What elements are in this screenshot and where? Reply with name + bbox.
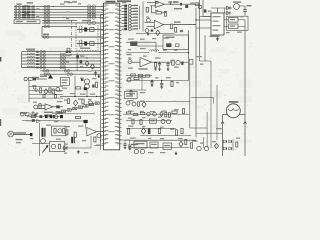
wire x196 main (195, 8, 197, 137)
testpoint TP1 (170, 1, 179, 3)
label U1 top (106, 1, 116, 3)
label M1 (229, 101, 239, 103)
connector pins J2-3 (88, 10, 96, 14)
box AMP1 (52, 126, 67, 136)
wire C201 stub (95, 71, 97, 77)
wire row A2 (14, 8, 87, 10)
op-amp U5A (45, 104, 53, 110)
connector pins J5-1 (60, 53, 66, 56)
ferrite bead FB4b (18, 14, 20, 16)
resistor R405 (151, 30, 154, 32)
wire row B5 (22, 63, 101, 65)
resistor R1201 (132, 119, 134, 124)
capacitor C401 (155, 2, 158, 3)
label shield box (82, 20, 91, 21)
wire x75 vert (74, 76, 76, 96)
misc value labels (16, 2, 244, 154)
wire filter row 1 (77, 29, 104, 31)
wire y120 row (126, 119, 172, 121)
resistor R506 (145, 75, 150, 77)
wire IC3 in2 (200, 16, 212, 18)
resistor R801 (134, 77, 139, 79)
label J3 (43, 34, 49, 35)
capacitor C1201 (148, 129, 151, 134)
resistor R1206 (175, 130, 177, 135)
diode D801 (142, 102, 146, 108)
capacitor C402 (180, 30, 183, 31)
transistor Q901 (41, 139, 46, 144)
connector pins J3 (43, 36, 49, 39)
label shield bottom (80, 48, 90, 49)
ferrite bead FB1b (18, 5, 20, 7)
wire U5A in (38, 105, 46, 108)
resistor R1205 (158, 129, 160, 134)
wire x84.5 vert (85, 123, 87, 128)
connector pins J4-7 (43, 70, 49, 73)
ground G301 (216, 37, 219, 41)
label bottom-left row (44, 112, 53, 113)
ground G1201 (175, 152, 178, 155)
wire row B2 (22, 54, 101, 56)
resistor R702 (76, 87, 81, 89)
resistor R1203 (150, 119, 157, 123)
volume arrow VR1 (43, 146, 48, 153)
resistor R1202 (140, 120, 142, 125)
capacitor CB6 (36, 67, 39, 69)
wire y95 right (191, 97, 213, 99)
node dot bus3 (100, 96, 101, 97)
capacitor C1001 (84, 120, 88, 123)
wire y46 center (137, 45, 163, 47)
transistor Q403 (198, 5, 201, 8)
wire rail y96.4 (60, 95, 104, 97)
resistor R905 (40, 115, 43, 118)
wire row A5 (14, 16, 87, 18)
wire x203 down (202, 0, 204, 17)
resistor R1301 (190, 143, 192, 148)
connector pins J5-4 (60, 63, 66, 66)
op-amp U4A (140, 58, 152, 67)
transistor Q1203 (134, 149, 138, 153)
filter coil FL1 (79, 26, 82, 33)
transistor Q801 (127, 78, 131, 82)
connector pins J4-2 (40, 54, 46, 57)
wire rail y90.4 (29, 89, 63, 91)
wire U3 top pin (217, 8, 219, 13)
diode D701 (74, 100, 78, 106)
transistor Q1001 (97, 134, 101, 138)
ground G503c (167, 68, 170, 71)
resistor R502 (154, 63, 156, 68)
capacitor C904 (32, 119, 35, 122)
label below mic (16, 139, 23, 140)
relay K1 frame (227, 16, 249, 30)
inductor L205 (27, 63, 35, 65)
wire x77 vert (76, 53, 78, 71)
resistor R1004 (94, 137, 96, 142)
transformer T201 (66, 51, 71, 53)
filter cap CF1 (84, 28, 87, 32)
wire S1 (36, 78, 47, 80)
diode D1301 (215, 143, 219, 148)
filter coil FL2 (79, 40, 82, 47)
transistor Q601b (56, 88, 60, 92)
wire IC3 in4 (196, 27, 211, 29)
transistor Q1301 (197, 146, 201, 150)
label bank B top (26, 49, 35, 50)
box tuner BX1 (163, 35, 189, 49)
plus mark 2 (36, 112, 39, 115)
resistor R505 (138, 74, 143, 76)
wire row A6-ext (77, 22, 104, 24)
op-amp U2A (155, 1, 164, 7)
left edge scan mark 2 (0, 119, 1, 126)
wire J2 row 4 to IC (87, 14, 104, 16)
relay coil K1b (229, 24, 239, 29)
connector pins J2-5 (88, 16, 96, 20)
transformer T104 (22, 14, 35, 16)
capacitor C1102 (128, 140, 131, 150)
box AMP2 (49, 142, 65, 152)
wire y41.5 center (126, 41, 156, 43)
ground G1001 (77, 150, 80, 153)
diode D1201 (141, 128, 146, 134)
ferrite bead FB3a (15, 11, 17, 13)
capacitor C403 (180, 3, 182, 6)
wire U2B in+ (145, 21, 155, 23)
resistor R811 (168, 113, 170, 117)
wire x213 vert (213, 98, 215, 104)
connector pins J6 (33, 86, 38, 91)
capacitor CB2 (36, 54, 39, 56)
transformer T103 (22, 11, 35, 13)
connector pins J2-4 (88, 13, 96, 17)
resistor R802 (171, 81, 173, 87)
transistor Q703 (88, 101, 92, 105)
connector pins J5-3 (60, 60, 66, 63)
filter res RF2 (90, 42, 94, 46)
label C301 (247, 5, 252, 6)
IC U1 body (104, 3, 120, 150)
node dot rail3 (96, 96, 97, 97)
RC network R34 C34 (122, 16, 138, 19)
ferrite bead FB4a (15, 14, 17, 16)
label region C a (64, 1, 70, 2)
wire row A-ext1 (42, 19, 77, 21)
ferrite bead FB3b (18, 11, 20, 13)
connector pins J5-2 (60, 57, 66, 60)
connector pins J1-6 (44, 19, 50, 22)
wire row A1 (14, 6, 87, 8)
wire y52.75 (126, 52, 189, 54)
connector pins J2-2 (88, 8, 96, 12)
transistor Q803 (132, 102, 136, 106)
wire U2B out (164, 24, 171, 26)
label S1 (40, 76, 47, 77)
wire y128 row (126, 127, 176, 129)
wire row y39 (42, 36, 104, 38)
transistor Q805 (153, 112, 157, 116)
wire x191 vert (189, 64, 191, 128)
resistor R605 (55, 95, 57, 98)
resistor R906 (25, 113, 29, 116)
transistor Q903 (51, 144, 55, 148)
wire x245 long (244, 20, 246, 115)
capacitor C405 (204, 9, 207, 12)
transistor Q601 (34, 105, 38, 109)
wire x203.4 vert (202, 137, 204, 148)
capacitor C503 (181, 62, 183, 65)
RC network R37 C37 (122, 25, 138, 28)
node dot B1 (70, 54, 71, 55)
resistor R601 (40, 88, 42, 93)
diode D201 arrow (48, 75, 53, 79)
wire J2 row 2 to IC (87, 8, 104, 10)
capacitor C703 (81, 78, 83, 81)
capacitor C902 electrolytic (42, 128, 46, 137)
resistor R406 (175, 28, 177, 33)
wire x156 drop (155, 42, 157, 53)
resistor R602 (49, 88, 51, 93)
transistor Q301 (234, 4, 240, 10)
node dot U4A1 (155, 62, 156, 63)
wire y90 (126, 89, 146, 91)
resistor R806 (133, 114, 138, 116)
connector pins J4-1 (40, 50, 46, 53)
connector pins J5-7 (67, 73, 73, 76)
capacitor CB1 (36, 51, 39, 53)
wire J2 row 5 to IC (87, 16, 104, 18)
resistor R501 (131, 42, 138, 46)
ferrite bead FB2b (18, 8, 20, 10)
wire rail y86.6 (29, 86, 63, 88)
resistor R603 (52, 89, 54, 94)
wire U2A out (165, 3, 200, 5)
wire U2B in- (147, 26, 155, 28)
diode D901 (37, 120, 41, 123)
inductor L206 (27, 66, 35, 68)
transformer T101 (22, 6, 35, 8)
capacitor C802 (160, 81, 163, 89)
RC network R35 C35 (122, 19, 138, 22)
resistor R803 (130, 91, 132, 95)
resistor R704 (82, 99, 84, 104)
wire rail y114 (123, 113, 189, 115)
node dot B2 (86, 57, 87, 58)
resistor R1002 (66, 130, 68, 135)
wire x207 vert (206, 112, 208, 148)
RC network R36 C36 (122, 22, 138, 25)
connector pins J4-5 (40, 63, 46, 66)
resistor R1302 (236, 142, 238, 147)
wire x29 vert (28, 81, 30, 103)
wire K1 pins (224, 20, 245, 27)
diode D802 (160, 112, 164, 117)
capacitor C602 (34, 114, 37, 116)
transformer T102 (22, 8, 35, 10)
switch S1 (24, 77, 36, 80)
wire y143 bl (32, 143, 49, 145)
connector pins J5-5 (60, 66, 66, 69)
connector pins J4-8 (44, 73, 50, 76)
capacitor C404 (185, 5, 188, 8)
component right edge (189, 60, 193, 65)
motor M1 (226, 104, 240, 118)
capacitor CB5 (36, 63, 39, 65)
ground G401 (147, 33, 150, 36)
diode D601 (44, 89, 48, 94)
wire row B-ext2 (40, 73, 100, 75)
node dot U4A3 (168, 62, 169, 63)
connector pins J2-1 (88, 5, 96, 9)
capacitor C903 (53, 115, 55, 118)
small box XT1 (61, 77, 70, 85)
connector pins J1-1 (44, 5, 50, 8)
wire J2 row 1 to IC (87, 6, 104, 8)
wire row A-ext2 (42, 22, 77, 24)
RC network R32 C32 (122, 10, 138, 13)
inductor L204 (27, 60, 35, 62)
wire rail y147.5 (128, 147, 189, 149)
wire rail y98.1 (29, 97, 63, 99)
wire IC3 in1 (196, 19, 211, 21)
wire bus x42 (41, 26, 43, 37)
transistor Q401 (147, 18, 151, 22)
transistor Q501 (176, 60, 180, 64)
wire row A4 (14, 14, 87, 16)
label U3 below (210, 36, 220, 37)
resistor R810 (165, 112, 167, 117)
filter res RF1 (90, 28, 94, 32)
top edge title text (117, 0, 131, 2)
box B1203 (163, 143, 172, 149)
wire MIC1 (14, 134, 30, 136)
resistor R808 (172, 111, 177, 113)
capacitor C601 (56, 105, 60, 108)
transistor Q702 (85, 84, 90, 89)
connector pins J4-6 (40, 66, 46, 69)
resistor R201 (76, 55, 79, 58)
diode D302 (227, 11, 231, 15)
resistor R504 (131, 74, 136, 76)
transistor Q804 (147, 112, 151, 116)
label U3 inner4 (213, 30, 219, 31)
resistor ladder RN1 (56, 102, 99, 114)
wire x188 vert (188, 30, 190, 81)
wire IC3 in3 (203, 16, 211, 18)
node dot C802 (161, 80, 162, 81)
RC network R33 C33 (122, 13, 138, 16)
connector pins J1-2 (44, 8, 50, 11)
transistor Q402 (145, 29, 149, 33)
resistor R511 (176, 44, 180, 47)
capacitor C301 (243, 6, 247, 15)
capacitor C510 (167, 44, 172, 47)
shield dashed box (76, 23, 98, 51)
inductor L501 (150, 50, 159, 52)
wire row y116.6 (27, 116, 60, 118)
resistor R902 (54, 129, 56, 134)
resistor R903 (63, 129, 65, 134)
wire row y75.5 (126, 75, 152, 77)
relay coil K1a (229, 18, 239, 23)
arrow M1 left (221, 122, 224, 124)
node dot bus2 (100, 60, 101, 61)
wire row A3 (14, 11, 87, 13)
resistor R604 (43, 94, 45, 98)
op-amp U2B (154, 20, 163, 29)
IC U3 body (211, 13, 224, 35)
wire M1 right (239, 115, 245, 157)
label U3 inner3 (213, 25, 221, 26)
ground G502c (154, 67, 157, 70)
plus mark 1 (32, 111, 35, 114)
capacitor C701 (84, 87, 87, 90)
resistor R407 (195, 3, 198, 6)
wire D30x (225, 8, 227, 13)
label below IC (131, 144, 138, 145)
IC U1 inner text (109, 12, 115, 132)
ferrite bead FB5a (15, 16, 17, 18)
capacitor C702 (92, 85, 94, 88)
wire ladder base (60, 113, 95, 115)
diode D401 (156, 30, 160, 36)
resistor R606 (39, 104, 41, 109)
connector pins J2-6 (88, 21, 96, 25)
resistor R701 (96, 82, 98, 87)
label bank B bottom (32, 77, 39, 78)
capacitor C1101 (123, 140, 126, 149)
transistor Q701 (84, 79, 89, 84)
node dot x77 (77, 61, 78, 62)
node dot IC3a (195, 19, 196, 20)
label Q301 (233, 1, 241, 2)
label U3 inner2 (213, 21, 219, 22)
wire y133 stub (120, 139, 130, 141)
jack J501 (128, 60, 132, 64)
resistor R804 (138, 102, 140, 106)
wire U7A out (97, 131, 104, 133)
connector pins J4-3 (40, 57, 46, 60)
wire U5A out (53, 106, 63, 108)
label U2 top right (174, 8, 182, 9)
label center left (127, 54, 132, 55)
wire y8 top right (211, 7, 232, 9)
label BX1 (166, 37, 175, 38)
wire row B3 (22, 57, 101, 59)
diode D202 (85, 61, 89, 66)
filter cap CF2 (84, 42, 87, 46)
resistor R1001 (76, 116, 81, 118)
resistor R805 (126, 112, 131, 114)
transformer T105 (22, 16, 35, 18)
wire rail y140.2 (126, 139, 196, 141)
ferrite bead FB2a (15, 8, 17, 10)
RC network R38 C38 (122, 28, 138, 31)
diode D1001 (64, 146, 68, 150)
wire x245 stub (244, 15, 246, 17)
resistor R403 (164, 11, 166, 16)
connector pins J1-7 (44, 22, 50, 25)
op-amp U7A (87, 128, 97, 136)
label region C b (72, 1, 77, 2)
label U4A (139, 68, 148, 69)
transistor Q1302 (204, 146, 208, 150)
relay box RLY1 (134, 141, 147, 148)
label bl row 2 (20, 112, 27, 113)
wire U4A out (152, 61, 172, 63)
wire y61 (200, 60, 212, 62)
